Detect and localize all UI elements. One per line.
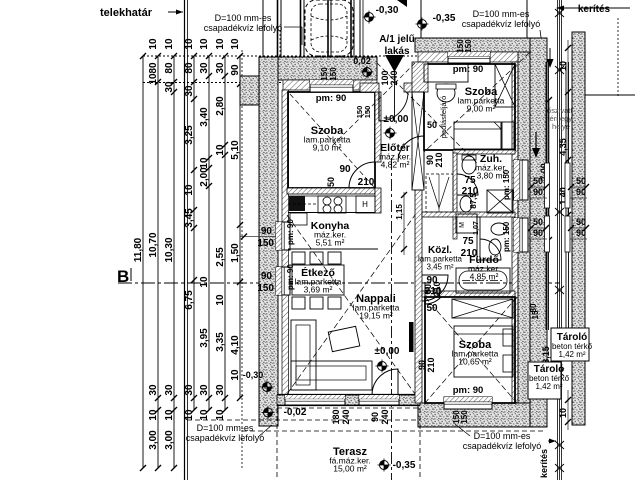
svg-text:30: 30	[148, 384, 159, 396]
svg-text:10,70: 10,70	[148, 232, 159, 257]
dim chain total 11,80	[142, 56, 144, 468]
level -0,30 top	[363, 5, 399, 24]
dim 1,15 nappali	[395, 192, 407, 255]
furniture szoba2 wardrobe X	[495, 64, 515, 107]
fixture furdo toilet2	[489, 239, 501, 255]
fixture zuh toilet low	[460, 196, 472, 212]
svg-text:2,55: 2,55	[215, 247, 226, 267]
svg-text:150: 150	[257, 283, 274, 294]
attic ladder dashed box	[426, 174, 453, 212]
svg-text:3,25: 3,25	[184, 125, 195, 145]
dotted line far top right	[617, 18, 619, 97]
gap wall face lines left	[546, 62, 549, 330]
furniture konyha counter	[288, 196, 375, 225]
svg-text:150: 150	[257, 238, 274, 249]
fence kerites line right (triple vertical with X marks)	[555, 0, 564, 480]
window left wall lower 90/150	[257, 264, 295, 295]
svg-text:150: 150	[329, 67, 338, 81]
rain pipe label bottom right	[455, 424, 541, 451]
svg-text:6,75: 6,75	[184, 290, 195, 310]
kerites label top right	[556, 4, 630, 15]
svg-text:90: 90	[261, 226, 273, 237]
wall bottom-right (stippled band)	[418, 403, 535, 427]
furniture szoba3 bed	[454, 326, 513, 377]
door szoba3 90/210	[423, 281, 451, 314]
svg-text:10: 10	[215, 294, 226, 306]
svg-text:-0,30: -0,30	[376, 5, 399, 16]
svg-text:10: 10	[215, 144, 226, 156]
door terasz arc	[372, 369, 398, 395]
level -0,02 terasz	[262, 406, 307, 419]
level +-0,00 eloter	[384, 114, 409, 140]
svg-text:10,65 m²: 10,65 m²	[458, 357, 492, 367]
spine wall vertical nappali-kozl	[415, 190, 422, 403]
svg-text:kerítés: kerítés	[578, 4, 611, 15]
window szoba3 bottom pm90	[444, 385, 492, 424]
svg-text:150: 150	[320, 67, 329, 81]
door furdo 75/210	[461, 193, 501, 260]
furniture szoba2 bed	[454, 122, 514, 149]
gap window dims 50 90 right	[576, 176, 586, 238]
eloter wardrobe tall	[412, 92, 424, 190]
svg-text:3,45 m²: 3,45 m²	[426, 263, 453, 272]
svg-text:10,30: 10,30	[164, 237, 175, 262]
svg-text:10: 10	[184, 38, 195, 50]
window top-left pm90	[310, 67, 353, 104]
svg-text:pm: 90: pm: 90	[316, 93, 347, 104]
furniture nappali sofa L-shape	[291, 320, 372, 390]
svg-text:±0,00: ±0,00	[384, 114, 409, 125]
svg-text:4,35: 4,35	[558, 138, 568, 156]
dim chain x194	[193, 56, 195, 410]
svg-text:pm: 150: pm: 150	[502, 221, 511, 252]
svg-text:10: 10	[199, 409, 210, 421]
dims 80 210 80 top of tarolo	[529, 303, 540, 319]
svg-text:9,10 m²: 9,10 m²	[313, 143, 342, 153]
svg-text:2,80: 2,80	[215, 96, 226, 116]
fixture furdo bathtub	[456, 268, 510, 293]
north arrow corner mark	[397, 0, 407, 7]
furniture etkezo table and chairs	[292, 252, 344, 309]
svg-text:30: 30	[215, 62, 226, 74]
svg-text:3,00: 3,00	[164, 430, 175, 450]
gap dim chain right 4,35 1,40	[558, 40, 571, 250]
rain pipe label bottom left	[186, 423, 272, 443]
svg-text:30: 30	[199, 384, 210, 396]
svg-text:240: 240	[380, 409, 390, 424]
svg-text:1,07: 1,07	[473, 221, 480, 235]
room szoba3 outline	[425, 297, 515, 403]
fixture zuh washbasin	[462, 155, 476, 174]
svg-text:10: 10	[164, 409, 175, 421]
svg-text:4,82 m²: 4,82 m²	[381, 160, 410, 170]
drain arrow in gap	[532, 132, 540, 158]
svg-text:1,50: 1,50	[230, 243, 241, 263]
svg-text:50: 50	[533, 176, 543, 186]
level -0,35 top	[416, 13, 456, 31]
terasz dashed outline	[187, 408, 545, 480]
svg-text:75: 75	[462, 236, 474, 247]
window left wall upper 90/150	[240, 219, 295, 250]
roof outline dotted second	[143, 82, 300, 84]
konyha floor boundary line	[288, 248, 378, 250]
ridge dash-dot vertical through nappali and terasz	[391, 158, 393, 480]
dim chain x240	[239, 56, 241, 398]
svg-text:11,80: 11,80	[133, 237, 144, 262]
furniture szoba1 diagonal	[290, 94, 374, 187]
svg-text:150: 150	[460, 410, 469, 424]
svg-text:csapadékvíz lefolyó: csapadékvíz lefolyó	[463, 441, 542, 451]
svg-text:19,15 m²: 19,15 m²	[359, 311, 393, 321]
wall wc-furdo vertical	[477, 217, 480, 260]
svg-text:3,40: 3,40	[199, 107, 210, 127]
svg-text:2,00: 2,00	[199, 167, 210, 187]
svg-text:D=100 mm-es: D=100 mm-es	[197, 423, 254, 433]
level +-0,00 nappali	[375, 346, 400, 373]
svg-text:-0,35: -0,35	[433, 13, 456, 24]
svg-text:4,10: 4,10	[230, 335, 241, 355]
svg-text:10: 10	[148, 38, 159, 50]
fixture furdo sink	[491, 223, 507, 235]
window right wall furdo pm150	[502, 218, 528, 252]
svg-text:telekhatár: telekhatár	[100, 7, 153, 19]
gap window right upper	[565, 163, 570, 208]
svg-text:H: H	[362, 200, 368, 209]
dim chain x174	[173, 56, 175, 468]
svg-text:10: 10	[148, 73, 159, 85]
svg-text:150: 150	[464, 39, 473, 53]
svg-text:3,69 m²: 3,69 m²	[304, 285, 333, 295]
property line telekhatar (double vertical)	[185, 0, 188, 480]
svg-text:240: 240	[341, 409, 351, 424]
svg-text:-0,30: -0,30	[243, 370, 264, 380]
svg-text:csapadékvíz lefolyó: csapadékvíz lefolyó	[186, 433, 265, 443]
car in carport (dashed)	[305, 0, 353, 56]
section line B (dash-dot horizontal)	[117, 267, 560, 286]
tarolo dim 10 bottom	[558, 390, 571, 430]
svg-text:M: M	[459, 222, 466, 228]
svg-text:A/1 jelű: A/1 jelű	[379, 34, 415, 45]
wall furdo-szoba3 horizontal	[422, 291, 515, 297]
svg-text:90: 90	[230, 64, 241, 76]
svg-text:10: 10	[199, 38, 210, 50]
tarolo dim 3,15	[541, 330, 551, 395]
svg-text:80: 80	[148, 62, 159, 74]
room label tarolo right	[552, 332, 593, 359]
diagonal guide nappali	[287, 215, 415, 394]
fixture washing machine M	[456, 214, 480, 235]
svg-text:50: 50	[576, 176, 586, 186]
tarolo room left (white pocket)	[528, 362, 561, 399]
svg-text:90: 90	[533, 187, 543, 197]
gap window left upper	[545, 163, 550, 208]
svg-text:3,00: 3,00	[148, 430, 159, 450]
door szoba2 90/210	[398, 120, 444, 168]
dim chain x158	[157, 56, 159, 468]
svg-text:10: 10	[230, 38, 241, 50]
wall zuh bottom horizontal	[422, 212, 515, 217]
svg-text:80: 80	[164, 62, 175, 74]
wall left (stippled band)	[259, 57, 289, 426]
svg-text:210: 210	[426, 357, 436, 372]
svg-text:9,00 m²: 9,00 m²	[467, 104, 496, 114]
svg-text:10: 10	[215, 38, 226, 50]
svg-text:150: 150	[363, 106, 372, 119]
svg-text:80: 80	[184, 62, 195, 74]
gap window dims 50 90 left	[533, 176, 543, 238]
dim 90 150 bottom of kozl	[417, 357, 436, 372]
dim chain x209	[208, 56, 210, 410]
svg-text:10: 10	[199, 157, 210, 169]
svg-text:75: 75	[464, 175, 476, 186]
diagonal guide szoba2	[424, 40, 543, 152]
svg-text:-0,02: -0,02	[284, 407, 307, 418]
fixture zuh shower tray	[487, 190, 513, 213]
svg-text:30: 30	[184, 384, 195, 396]
door kozl 90/210	[422, 275, 448, 301]
svg-text:pm: 90: pm: 90	[453, 385, 484, 396]
svg-text:50: 50	[533, 217, 543, 227]
eloter top wall piece right	[404, 83, 413, 92]
svg-text:10: 10	[184, 184, 195, 196]
level -0,35 terasz bottom	[378, 459, 416, 472]
gap window left lower	[545, 216, 550, 252]
svg-text:3,15: 3,15	[541, 346, 551, 364]
svg-text:10: 10	[164, 38, 175, 50]
tarolo room right (white pocket)	[551, 328, 589, 361]
svg-text:30: 30	[199, 62, 210, 74]
window top-right pm90	[448, 39, 490, 75]
door szoba1 90/210	[326, 162, 375, 188]
svg-text:3,95: 3,95	[199, 328, 210, 348]
terrace door 90/240	[359, 395, 399, 425]
heat pump label	[538, 106, 584, 131]
gap dim chain 7,00	[539, 97, 552, 243]
gap wall face lines right	[566, 62, 569, 330]
neighbour wall block top-left	[240, 76, 260, 105]
svg-text:D=100 mm-es: D=100 mm-es	[473, 9, 530, 19]
telekhatar label	[100, 7, 183, 19]
svg-text:kerítés: kerítés	[539, 449, 549, 478]
svg-text:50: 50	[326, 177, 336, 187]
extension line dotted vertical left of building	[241, 50, 243, 470]
svg-text:15: 15	[531, 310, 540, 319]
svg-text:10: 10	[184, 409, 195, 421]
svg-text:3,35: 3,35	[215, 332, 226, 352]
kerites label bottom right (rotated)	[539, 439, 556, 479]
roof outline dotted top	[143, 55, 420, 57]
interior wall szoba1-eloter vertical (keep)	[375, 92, 381, 162]
svg-text:3,45: 3,45	[184, 208, 195, 228]
svg-text:csapadékvíz lefolyó: csapadékvíz lefolyó	[204, 23, 283, 33]
roof valley diagonal from porch right	[330, 63, 415, 148]
svg-text:4,85 m²: 4,85 m²	[470, 272, 499, 282]
carport posts	[263, 0, 527, 62]
window right wall zuh pm150	[502, 160, 528, 200]
konyha right wall stub	[375, 188, 381, 213]
neighbour strip left column	[530, 38, 547, 427]
dotted extension carport	[279, 30, 281, 62]
svg-text:1,42 m²: 1,42 m²	[558, 350, 585, 359]
rain pipe label top right	[462, 9, 543, 52]
dim chain x225	[224, 56, 226, 410]
svg-text:5,51 m²: 5,51 m²	[316, 238, 345, 248]
svg-text:30: 30	[164, 81, 175, 93]
arrow down at gap top	[547, 48, 554, 68]
room szoba2 outline	[424, 64, 515, 150]
svg-text:10: 10	[199, 276, 210, 288]
svg-text:210: 210	[434, 152, 444, 167]
svg-text:1,15: 1,15	[395, 204, 404, 220]
room szoba1 outline	[288, 92, 375, 188]
furniture szoba3 wardrobe X	[452, 299, 513, 318]
wall right (hatched band)	[512, 52, 530, 427]
gap dim hlines 50 90 right	[568, 184, 589, 239]
interior wall szoba1-konyha	[287, 188, 375, 194]
level -0,30 bottom left	[243, 370, 274, 394]
svg-text:1,42 m²: 1,42 m²	[535, 382, 562, 391]
svg-text:5,10: 5,10	[230, 140, 241, 160]
neighbour eaves line right	[585, 94, 635, 96]
svg-text:pm: 90: pm: 90	[286, 219, 295, 245]
furniture szoba2 desk and chair	[424, 64, 468, 102]
svg-text:0,02: 0,02	[353, 56, 371, 66]
terrace window 180/240	[285, 395, 351, 425]
wall top-left (stippled band)	[259, 57, 377, 90]
svg-text:helye: helye	[552, 122, 570, 131]
svg-text:180: 180	[331, 409, 341, 424]
svg-text:90: 90	[533, 228, 543, 238]
svg-text:B: B	[117, 267, 129, 286]
svg-text:10: 10	[215, 409, 226, 421]
svg-text:90: 90	[339, 164, 351, 175]
gap window right lower	[565, 216, 570, 252]
svg-text:30: 30	[215, 384, 226, 396]
svg-text:30: 30	[164, 384, 175, 396]
wall m-shaft left	[453, 217, 457, 239]
neighbour strip right column	[572, 32, 585, 425]
svg-text:10: 10	[558, 408, 568, 418]
wall zuh-kozl vertical	[453, 153, 457, 212]
apartment label A/1 jelu lakas with entry arrow	[379, 34, 415, 122]
svg-text:10: 10	[148, 409, 159, 421]
wall top-right (stippled band)	[415, 38, 545, 62]
svg-text:30: 30	[184, 85, 195, 97]
svg-text:15,00 m²: 15,00 m²	[333, 464, 367, 474]
svg-text:87,5: 87,5	[469, 193, 478, 209]
eloter top wall piece	[360, 83, 379, 92]
entry side wall block	[412, 62, 428, 92]
furniture nappali tv	[409, 322, 414, 352]
diagonal guide szoba3	[425, 297, 517, 403]
dims 150 150 entry left	[355, 106, 372, 119]
svg-text:-0,35: -0,35	[393, 460, 416, 471]
svg-text:50: 50	[576, 217, 586, 227]
level 0,02	[353, 56, 373, 79]
svg-text:90: 90	[370, 412, 380, 422]
svg-text:3,80 m²: 3,80 m²	[477, 171, 506, 181]
svg-text:10: 10	[230, 369, 241, 381]
wall szoba2-zuh horizontal	[453, 150, 515, 154]
roof valley diagonal from porch left	[377, 63, 478, 164]
svg-text:90: 90	[261, 271, 273, 282]
entry door arc	[379, 92, 408, 121]
svg-text:csapadékvíz lefolyó: csapadékvíz lefolyó	[462, 19, 541, 29]
room label tarolo left	[529, 364, 570, 391]
gap dim hlines 50 90 left	[528, 184, 549, 239]
wall bottom nappali (window band)	[277, 395, 420, 406]
furniture nappali coffee table	[328, 326, 360, 351]
svg-text:D=100 mm-es: D=100 mm-es	[474, 431, 531, 441]
door zuh 75/210	[457, 174, 479, 197]
svg-text:10: 10	[558, 61, 568, 71]
svg-text:50: 50	[426, 303, 438, 314]
rain pipe label top left	[204, 13, 302, 45]
svg-text:210: 210	[432, 281, 442, 296]
